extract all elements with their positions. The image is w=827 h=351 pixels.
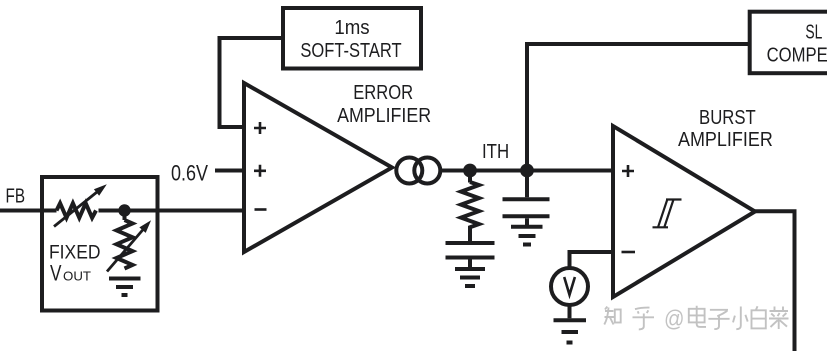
svg-text:AMPLIFIER: AMPLIFIER bbox=[337, 105, 431, 127]
svg-text:FB: FB bbox=[6, 185, 26, 208]
svg-text:AMPLIFIER: AMPLIFIER bbox=[678, 129, 773, 151]
svg-text:V: V bbox=[50, 261, 62, 286]
svg-text:SL: SL bbox=[805, 22, 822, 44]
svg-text:0.6V: 0.6V bbox=[171, 161, 208, 186]
svg-text:1ms: 1ms bbox=[334, 17, 369, 39]
svg-text:ERROR: ERROR bbox=[353, 82, 413, 104]
svg-text:SOFT-START: SOFT-START bbox=[300, 40, 401, 62]
svg-text:ITH: ITH bbox=[482, 141, 509, 163]
svg-text:BURST: BURST bbox=[699, 107, 756, 129]
svg-text:OUT: OUT bbox=[63, 269, 91, 284]
svg-text:@: @ bbox=[664, 306, 685, 332]
svg-text:COMPENSATION: COMPENSATION bbox=[767, 45, 827, 67]
